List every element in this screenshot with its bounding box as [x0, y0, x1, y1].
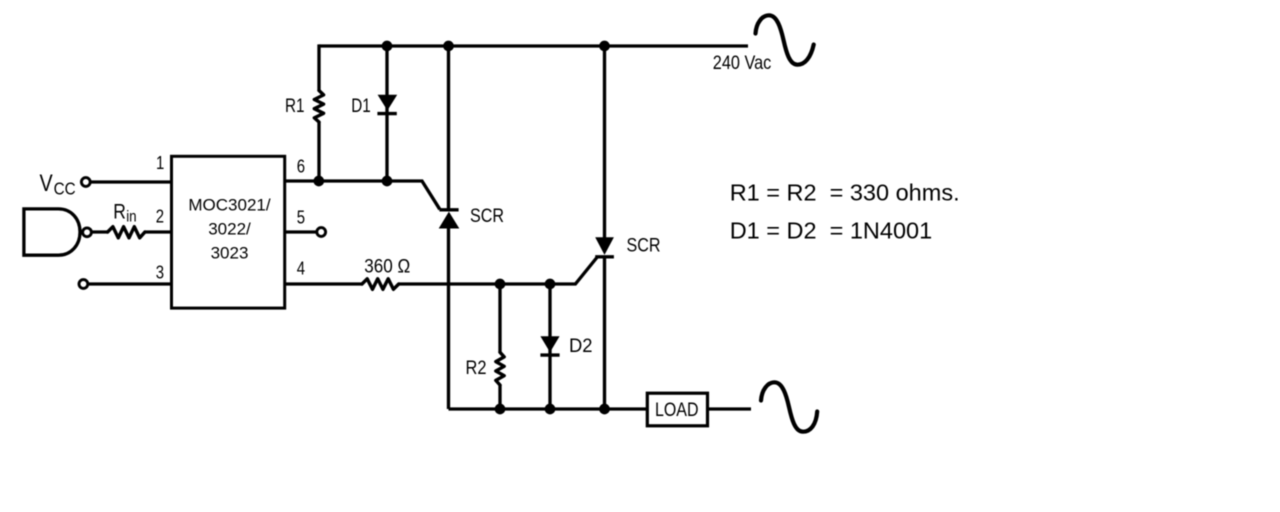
- svg-text:240 Vac: 240 Vac: [713, 52, 772, 74]
- svg-text:D2: D2: [569, 336, 593, 357]
- svg-text:3: 3: [156, 263, 164, 283]
- svg-text:2: 2: [156, 206, 164, 226]
- svg-text:SCR: SCR: [470, 205, 504, 227]
- svg-text:4: 4: [297, 259, 305, 279]
- svg-text:360 Ω: 360 Ω: [364, 257, 410, 278]
- svg-text:R1: R1: [285, 96, 305, 117]
- svg-text:3023: 3023: [211, 244, 249, 263]
- svg-text:in: in: [126, 209, 136, 226]
- svg-text:SCR: SCR: [627, 235, 661, 257]
- svg-text:MOC3021/: MOC3021/: [188, 196, 270, 215]
- svg-text:R1 = R2 = 330 ohms.: R1 = R2 = 330 ohms.: [730, 180, 960, 206]
- svg-text:CC: CC: [54, 178, 76, 198]
- svg-text:D1: D1: [351, 96, 371, 117]
- svg-text:V: V: [40, 170, 53, 197]
- svg-text:3022/: 3022/: [208, 220, 251, 239]
- svg-text:R2: R2: [466, 357, 487, 379]
- svg-text:LOAD: LOAD: [655, 399, 699, 421]
- svg-text:D1 = D2 = 1N4001: D1 = D2 = 1N4001: [730, 218, 933, 244]
- svg-text:6: 6: [297, 157, 305, 177]
- svg-text:R: R: [113, 200, 126, 223]
- svg-text:5: 5: [297, 208, 305, 228]
- svg-text:1: 1: [156, 153, 164, 173]
